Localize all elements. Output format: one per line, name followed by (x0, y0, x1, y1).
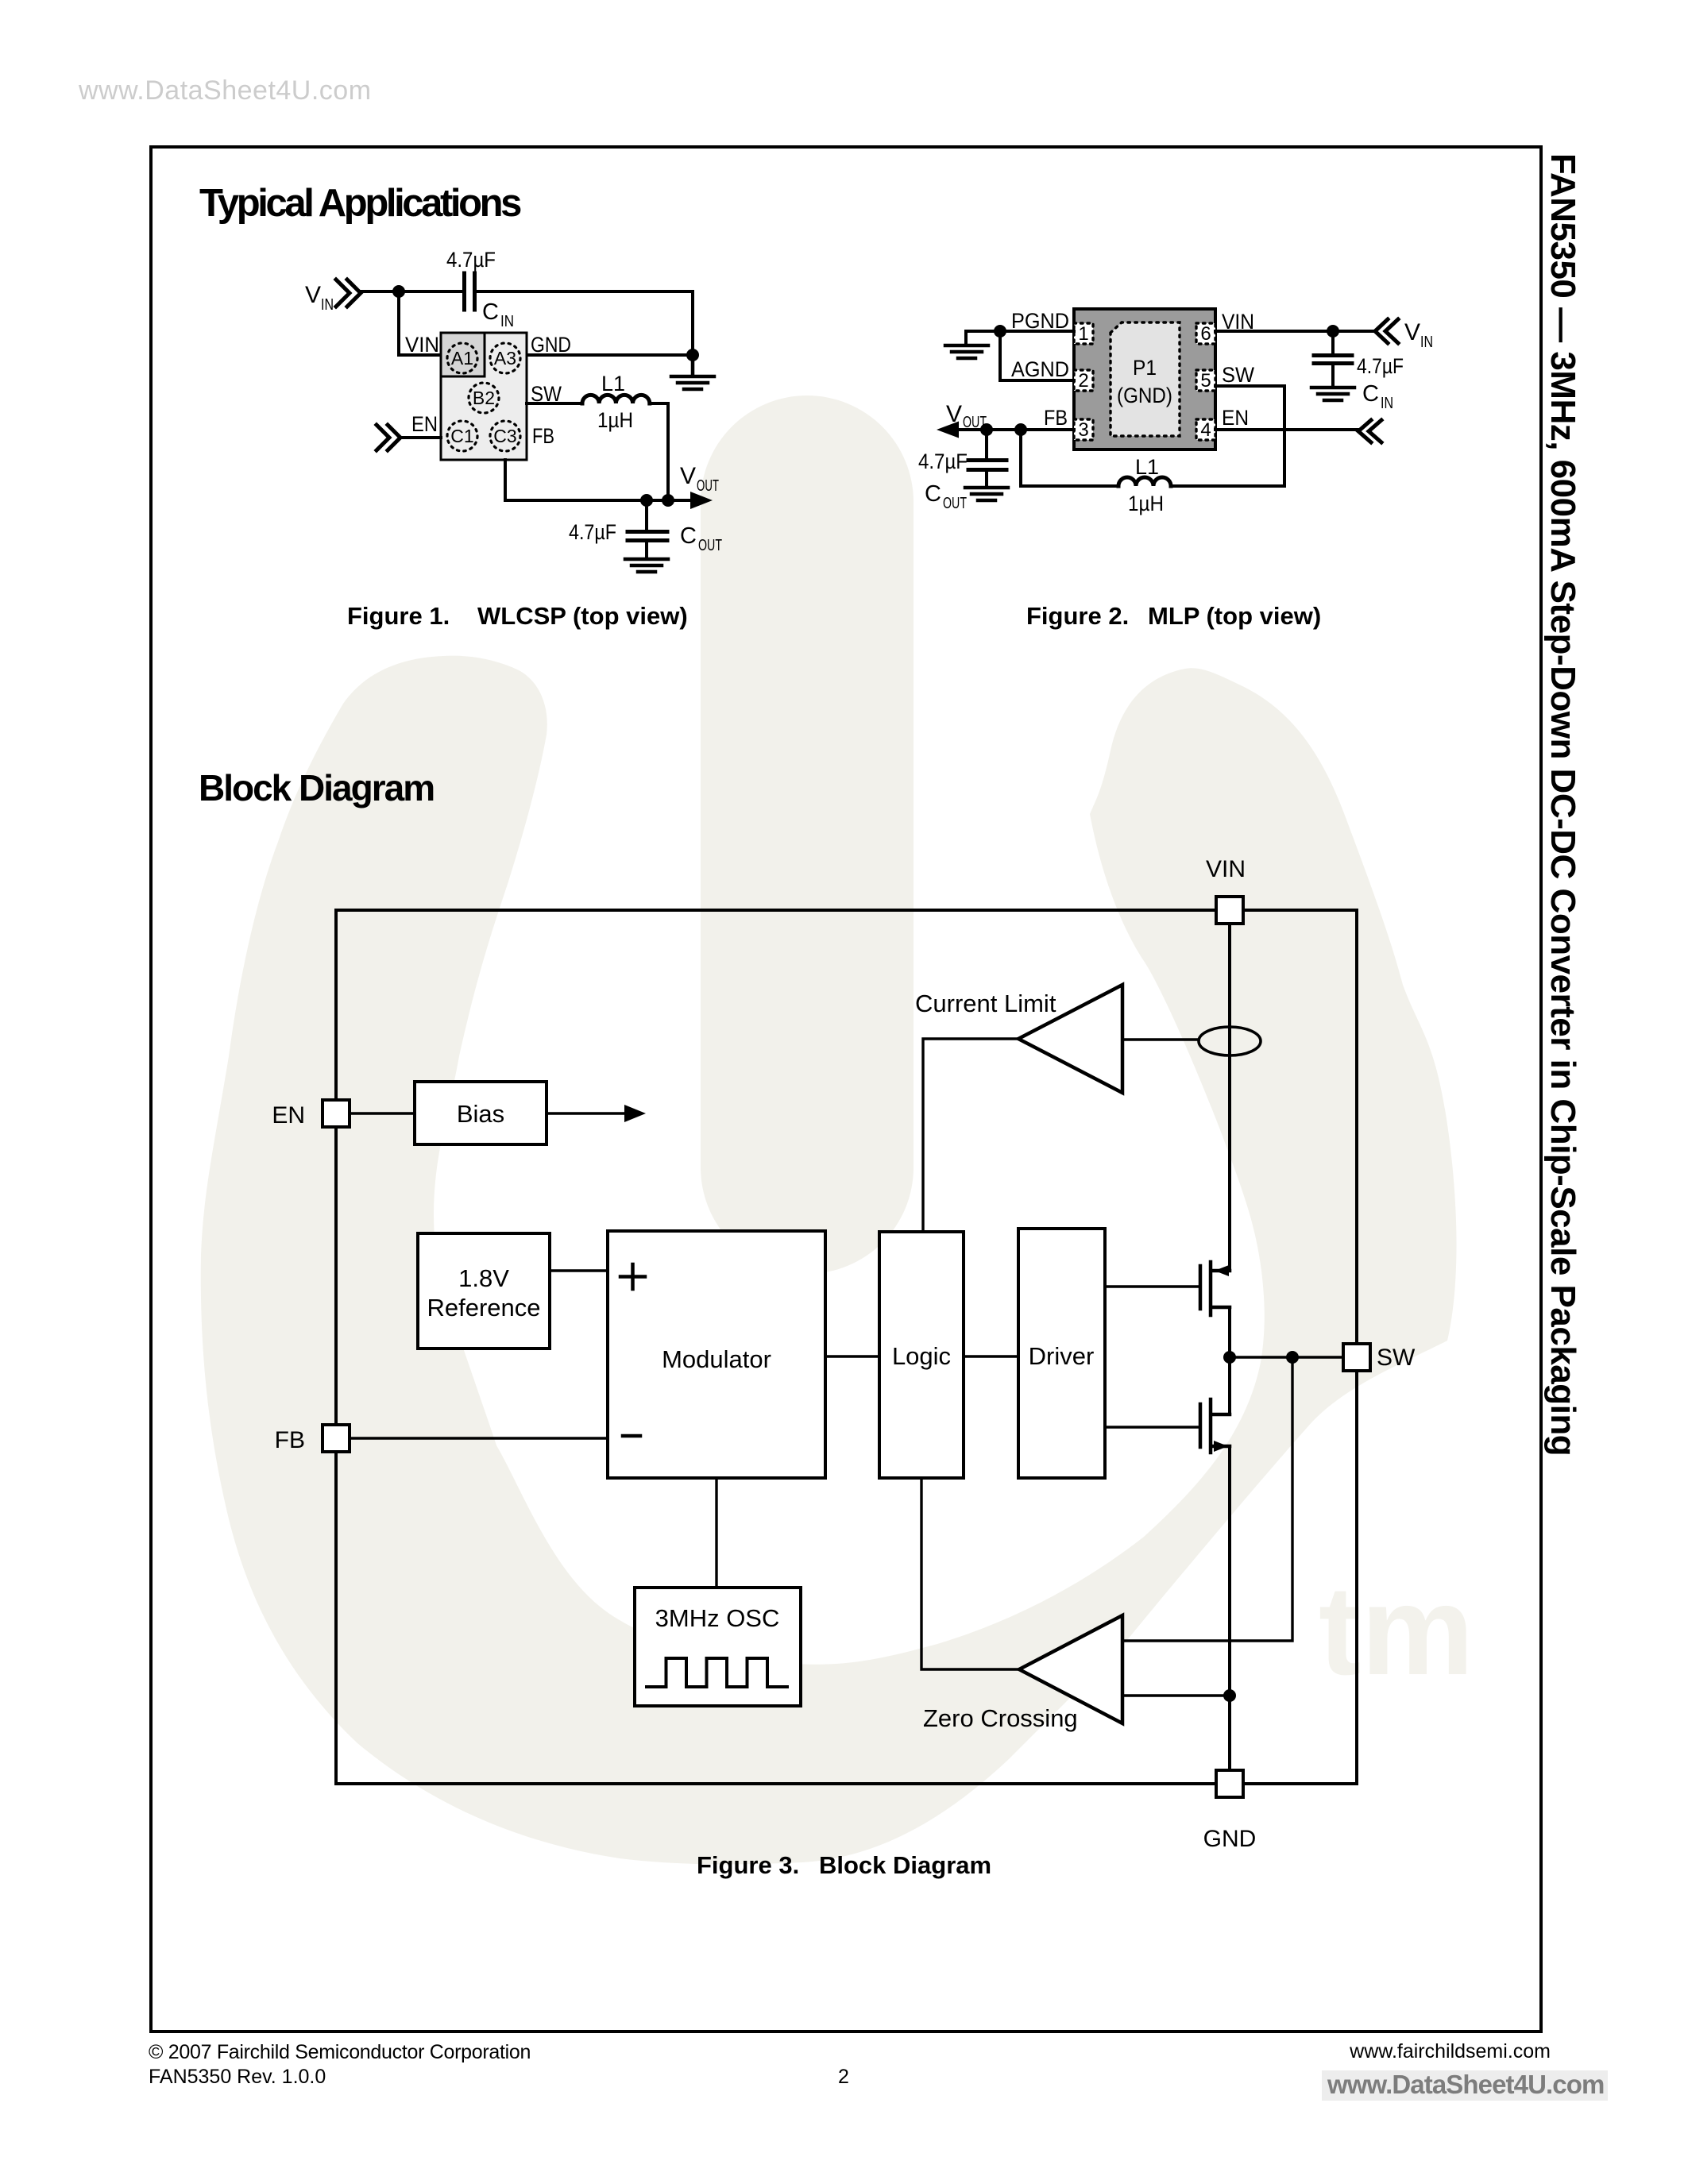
svg-text:EN: EN (272, 1102, 305, 1129)
block 1.8V Reference (418, 1233, 550, 1349)
pin label GND (531, 333, 571, 357)
svg-text:C3: C3 (493, 426, 516, 446)
label L1 (601, 372, 625, 396)
label VOUT (680, 463, 719, 495)
svg-text:4.7µF: 4.7µF (918, 450, 968, 473)
wire PGND (966, 331, 1074, 344)
label 4.7uF of CIN (446, 248, 496, 272)
svg-text:Block Diagram: Block Diagram (819, 1851, 991, 1879)
caption Figure 3 (697, 1851, 991, 1879)
pin label SW (1222, 363, 1254, 387)
wire zero crossing upper input from SW (1122, 1357, 1292, 1641)
node junction on VIN rail (392, 285, 405, 298)
svg-text:Reference: Reference (427, 1294, 540, 1322)
label VIN port (1206, 856, 1246, 882)
capacitor COUT2 (968, 430, 1006, 486)
block diagram outer box (336, 910, 1357, 1784)
comparator current limit (1018, 985, 1122, 1093)
label CIN2 (1362, 381, 1393, 412)
pad pin 5 (1196, 370, 1215, 392)
comparator zero crossing (1019, 1615, 1122, 1723)
svg-text:VIN: VIN (405, 333, 439, 357)
svg-text:L1: L1 (1135, 455, 1159, 479)
wire driver to low gate (1105, 1426, 1199, 1428)
svg-text:4.7µF: 4.7µF (446, 248, 496, 272)
svg-text:Typical Applications: Typical Applications (199, 182, 521, 225)
label VIN source (305, 282, 334, 314)
block Modulator (608, 1231, 825, 1478)
port GND pad (1216, 1770, 1243, 1797)
wire logic to driver (964, 1355, 1018, 1357)
label 1uH fig2 (1128, 492, 1164, 515)
svg-text:1.8V: 1.8V (458, 1264, 509, 1292)
wire SW to inductor (527, 402, 582, 405)
svg-text:2: 2 (1078, 370, 1088, 392)
port VIN pad (1216, 897, 1243, 924)
node junction SW left (1223, 1351, 1236, 1364)
inductor L1 fig2 (1118, 477, 1171, 486)
port EN input chevron (377, 425, 400, 450)
svg-text:FB: FB (532, 424, 554, 448)
wire EN to bias (350, 1112, 415, 1114)
svg-text:3: 3 (1078, 419, 1088, 441)
osc square wave glyph (647, 1658, 787, 1687)
svg-text:OUT: OUT (963, 414, 987, 431)
svg-text:AGND: AGND (1011, 357, 1069, 381)
wire current limit to logic (923, 1039, 1018, 1232)
svg-text:C1: C1 (450, 426, 473, 446)
capacitor COUT (628, 500, 667, 558)
svg-text:IN: IN (321, 296, 334, 314)
wire EN fig2 (1215, 428, 1359, 431)
svg-text:EN: EN (411, 412, 438, 436)
wire zero crossing lower input from gnd line (1122, 1694, 1230, 1696)
svg-text:L1: L1 (601, 372, 625, 396)
footer fairchild url (1349, 2040, 1551, 2062)
svg-text:1µH: 1µH (1128, 492, 1164, 515)
chip U2 MLP body (1074, 309, 1215, 450)
block 3MHz OSC (635, 1588, 801, 1706)
ground symbol CIN2 (1311, 388, 1354, 400)
svg-text:1: 1 (1078, 323, 1088, 345)
svg-text:A1: A1 (451, 348, 473, 369)
svg-text:4: 4 (1200, 419, 1211, 441)
ball A3 (490, 343, 520, 373)
svg-text:OUT: OUT (697, 477, 719, 495)
label 4.7uF of CIN2 (1357, 354, 1404, 378)
ball B2 (469, 383, 499, 413)
node junction VOUT right (662, 494, 674, 507)
label SW port (1377, 1345, 1416, 1371)
svg-text:Modulator: Modulator (662, 1345, 771, 1373)
svg-text:Zero Crossing: Zero Crossing (923, 1704, 1078, 1732)
chip U1 corner cell A1 (441, 333, 485, 376)
wire modulator to logic (825, 1355, 879, 1357)
wire VIN pin branch (399, 291, 441, 355)
heading Block Diagram (199, 767, 434, 808)
svg-text:FAN5350 — 3MHz, 600mA Step-Dow: FAN5350 — 3MHz, 600mA Step-Down DC-DC Co… (1543, 153, 1582, 1456)
block Driver (1018, 1229, 1105, 1478)
pin label SW (531, 382, 562, 406)
svg-text:Block Diagram: Block Diagram (199, 767, 434, 808)
wire FB feedback (505, 460, 668, 500)
pad pin 6 (1196, 323, 1215, 345)
svg-text:VIN: VIN (1206, 856, 1246, 882)
svg-text:GND: GND (531, 333, 571, 357)
label 4.7uF of COUT (569, 520, 616, 544)
footer revision line (149, 2066, 326, 2088)
node junction VOUT left (640, 494, 653, 507)
svg-text:C: C (680, 523, 697, 549)
wire bottom loop to inductor (1021, 430, 1118, 486)
pin label VIN (1222, 310, 1254, 334)
svg-text:P1: P1 (1133, 356, 1157, 380)
label COUT (680, 523, 722, 554)
svg-text:V: V (305, 282, 321, 308)
svg-text:4.7µF: 4.7µF (569, 520, 616, 544)
wire FB to modulator (350, 1437, 608, 1439)
modulator plus input (620, 1264, 645, 1289)
pad pin 1 (1074, 323, 1093, 345)
svg-text:www.DataSheet4U.com: www.DataSheet4U.com (1327, 2070, 1604, 2099)
pin label EN (1222, 406, 1249, 430)
svg-text:C: C (482, 299, 499, 325)
node junction FB cout (980, 423, 993, 436)
node junction zero crossing gnd (1223, 1689, 1236, 1702)
watermark stem bar (701, 396, 914, 1274)
footer datasheet4u url (1322, 2070, 1608, 2101)
transistor Q2 arrow (1214, 1441, 1228, 1452)
wire modulator to osc (715, 1478, 717, 1588)
svg-text:SW: SW (1222, 363, 1254, 387)
svg-text:A3: A3 (494, 348, 516, 369)
svg-text:OUT: OUT (943, 495, 967, 512)
wire inductor to VOUT node (650, 403, 668, 500)
port SW pad (1343, 1344, 1370, 1371)
label L1 fig2 (1135, 455, 1159, 479)
svg-text:FB: FB (275, 1427, 305, 1453)
label EN port (272, 1102, 305, 1129)
caption Figure 2 (1026, 602, 1321, 630)
port VIN input chevron (336, 280, 361, 307)
node junction FB inductor (1014, 423, 1027, 436)
svg-text:V: V (680, 463, 696, 489)
svg-text:6: 6 (1200, 323, 1211, 345)
port VIN chevron fig2 (1375, 319, 1398, 343)
capacitor CIN2 (1314, 331, 1352, 386)
chip U2 thermal paddle P1 (1111, 322, 1180, 436)
ball C1 (447, 421, 477, 451)
label COUT2 (925, 481, 967, 512)
svg-text:B2: B2 (473, 388, 495, 408)
svg-text:© 2007 Fairchild Semiconductor: © 2007 Fairchild Semiconductor Corporati… (149, 2041, 531, 2063)
node junction PGND (994, 325, 1006, 338)
wire VIN main vertical (1228, 924, 1231, 1770)
wire SW node (1230, 1356, 1343, 1358)
svg-text:Figure 3.: Figure 3. (697, 1851, 799, 1879)
label GND port (1203, 1826, 1257, 1852)
label Zero Crossing (923, 1704, 1078, 1732)
transistor Q1 arrow (1215, 1265, 1229, 1276)
header url text (78, 75, 372, 106)
svg-text:EN: EN (1222, 406, 1249, 430)
pin label VIN (405, 333, 439, 357)
node junction SW right (1286, 1351, 1299, 1364)
ground symbol at CIN return (671, 355, 714, 389)
ball C3 (490, 421, 520, 451)
inductor L1 (582, 395, 650, 403)
current sense ellipse (1199, 1027, 1261, 1055)
svg-text:1µH: 1µH (597, 408, 633, 432)
node junction GND (686, 349, 699, 361)
transistor Q2 low side (1200, 1399, 1230, 1453)
label CIN (482, 299, 514, 330)
footer copyright line (149, 2041, 531, 2063)
transistor Q1 high side (1200, 1262, 1230, 1315)
svg-text:C: C (925, 481, 941, 507)
pin label AGND (1011, 357, 1069, 381)
wire AGND (1000, 331, 1074, 380)
svg-text:4.7µF: 4.7µF (1357, 354, 1404, 378)
pad pin 3 (1074, 419, 1093, 441)
wire driver to high gate (1105, 1285, 1199, 1287)
capacitor CIN (465, 273, 475, 310)
svg-text:Logic: Logic (892, 1342, 951, 1370)
svg-text:C: C (1362, 381, 1379, 407)
svg-text:5: 5 (1200, 370, 1211, 392)
label FB port (275, 1427, 305, 1453)
wire GND rail right corner (527, 291, 693, 355)
wire sense to current limit (1122, 1038, 1199, 1040)
label 1uH (597, 408, 633, 432)
port EN pad (323, 1100, 350, 1127)
svg-text:tm: tm (1319, 1559, 1474, 1701)
ball A1 (447, 343, 477, 373)
label 4.7uF of COUT2 (918, 450, 968, 473)
pad pin 4 (1196, 419, 1215, 441)
svg-text:IN: IN (1381, 395, 1393, 412)
wire FB (959, 428, 1074, 431)
svg-text:SW: SW (1377, 1345, 1416, 1371)
pin label FB (1044, 406, 1068, 430)
svg-text:Driver: Driver (1029, 1342, 1095, 1370)
chip U1 WLCSP body (441, 333, 527, 460)
port EN chevron fig2 (1358, 420, 1381, 442)
page frame border (151, 147, 1541, 2032)
pad pin 2 (1074, 370, 1093, 392)
svg-text:(GND): (GND) (1117, 384, 1172, 407)
svg-text:Bias: Bias (457, 1100, 504, 1128)
svg-text:3MHz OSC: 3MHz OSC (655, 1604, 780, 1632)
pin label EN (411, 412, 438, 436)
wire VIN fig2 (1215, 330, 1375, 333)
heading Typical Applications (199, 182, 521, 225)
label VOUT (946, 401, 987, 431)
label VIN source fig2 (1404, 319, 1433, 351)
svg-text:PGND: PGND (1011, 309, 1069, 333)
svg-text:Figure 2.: Figure 2. (1026, 602, 1129, 630)
svg-text:MLP (top view): MLP (top view) (1148, 602, 1321, 630)
wire inductor to SW (1171, 386, 1284, 486)
block Logic (879, 1232, 964, 1478)
ground symbol at COUT (625, 559, 668, 572)
block Bias (415, 1082, 547, 1144)
port VOUT arrow (668, 492, 713, 509)
svg-text:V: V (1404, 319, 1420, 345)
sidebar vertical title (1543, 153, 1582, 1456)
pin label PGND (1011, 309, 1069, 333)
svg-text:www.DataSheet4U.com: www.DataSheet4U.com (78, 75, 372, 106)
watermark tm text (1319, 1559, 1474, 1701)
label Current Limit (915, 990, 1056, 1017)
wire logic to zero crossing (921, 1478, 1019, 1669)
footer page number (838, 2066, 849, 2088)
svg-text:IN: IN (1420, 334, 1433, 351)
label P1 (GND) (1117, 356, 1172, 407)
svg-text:WLCSP (top view): WLCSP (top view) (477, 602, 688, 630)
caption Figure 1 (347, 602, 688, 630)
pin label FB (532, 424, 554, 448)
port FB pad (323, 1425, 350, 1452)
ground symbol PGND (945, 345, 988, 358)
node junction CIN2 (1327, 325, 1339, 338)
wire reference to modulator (550, 1269, 608, 1271)
wire VIN top rail (361, 290, 693, 293)
svg-text:Current Limit: Current Limit (915, 990, 1056, 1017)
svg-text:IN: IN (500, 313, 514, 330)
svg-text:V: V (946, 401, 962, 427)
svg-text:2: 2 (838, 2066, 849, 2088)
svg-text:FB: FB (1044, 406, 1068, 430)
arrow from bias (547, 1105, 646, 1122)
ground symbol COUT2 (965, 488, 1008, 500)
watermark U logo ring (201, 656, 1457, 1865)
wire EN (402, 436, 441, 439)
port VOUT arrow left (937, 422, 959, 438)
svg-text:OUT: OUT (698, 537, 722, 554)
svg-text:Figure 1.: Figure 1. (347, 602, 450, 630)
svg-text:FAN5350 Rev. 1.0.0: FAN5350 Rev. 1.0.0 (149, 2066, 326, 2088)
svg-text:www.fairchildsemi.com: www.fairchildsemi.com (1349, 2040, 1551, 2062)
modulator minus input (623, 1434, 640, 1438)
svg-text:GND: GND (1203, 1826, 1257, 1852)
